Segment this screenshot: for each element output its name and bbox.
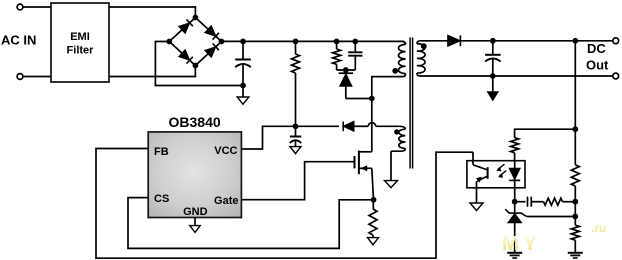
wire [109,66,195,77]
light arrows [498,164,505,169]
resistor R4 [511,138,519,153]
resistor R2 [336,41,338,49]
ground [194,218,196,226]
transformer T1 aux winding [400,126,406,129]
wire [574,41,576,165]
wire [376,125,400,127]
wire TL431 ref [527,216,576,218]
wire [420,40,448,42]
ground [368,238,379,245]
clamp diode D5 [345,70,347,73]
junction [334,39,340,45]
terminal DC- [613,73,619,79]
junction [343,67,349,73]
svg-text:CS: CS [154,193,169,205]
junction [166,39,172,45]
wire [23,76,51,78]
resistor R6 [571,165,579,186]
wire [514,153,516,161]
wire [563,201,576,203]
junction [193,15,199,21]
diode D4 [205,47,216,58]
wire [354,125,368,127]
terminal AC-L [17,4,23,10]
junction [193,63,199,69]
svg-text:Out: Out [586,57,609,72]
junction [572,199,578,205]
wire hop [368,123,375,127]
junction [369,96,375,102]
wire [222,40,405,42]
junction [572,38,578,44]
junction [490,38,496,44]
EMI filter block [51,3,109,82]
wire FB loop [96,149,473,259]
ground [290,147,301,154]
capacitor C2 [354,41,356,52]
diode D1 [179,23,190,34]
wire [371,99,373,152]
resistor R1 [295,41,297,54]
junction [352,39,358,45]
capacitor C4 [492,41,494,55]
junction [490,73,496,79]
wire [155,42,243,86]
IC U1 OB3840 [148,132,241,218]
opto transistor [472,152,474,165]
wire [337,69,356,71]
capacitor C1 [242,41,244,59]
capacitor C3 [295,126,297,136]
ground earth [507,252,522,254]
junction [293,123,299,129]
transformer T1 secondary [417,41,420,44]
wire [574,240,576,252]
svg-text:FB: FB [154,146,169,158]
shunt regulator U3 TL431 [514,202,516,213]
ground [242,86,244,98]
junction [512,199,518,205]
junction [293,39,299,45]
opto LED [514,161,516,169]
svg-text:AC IN: AC IN [1,33,36,48]
svg-text:.ru: .ru [591,221,606,235]
optocoupler U2 box [467,161,525,188]
ground earth [568,252,583,254]
diode D3 [205,26,216,37]
wire [109,7,195,18]
transistor Q1 [354,156,356,168]
svg-text:MY: MY [502,232,541,255]
junction [240,83,246,89]
terminal DC+ [613,38,619,44]
resistor R7 [571,225,579,240]
diode D6 [343,121,354,131]
wire [242,162,355,200]
svg-text:OB3840: OB3840 [169,114,221,130]
junction [371,197,377,203]
polarity dot aux [394,129,399,134]
svg-text:GND: GND [183,206,208,218]
wire [574,186,576,225]
bridge frame [169,18,221,66]
svg-text:EMI: EMI [70,31,90,43]
core [410,38,413,169]
ground [390,151,392,180]
resistor R5 [544,198,563,205]
wire [420,75,613,77]
wire [372,77,403,99]
junction [572,214,578,220]
junction [240,39,246,45]
polarity dot secondary [421,43,427,49]
transformer T1 primary [403,41,406,44]
junction [572,126,578,132]
terminal AC-N [17,74,23,80]
diode D2 [179,50,190,61]
wire [23,6,51,8]
svg-text:DC: DC [587,41,606,56]
resistor R3 [372,200,374,209]
junction [219,39,225,45]
ground secondary [488,92,498,100]
svg-text:VCC: VCC [214,145,237,157]
wire [459,40,613,42]
svg-text:Filter: Filter [67,45,95,57]
diode D7 [448,35,461,46]
wire [242,126,296,149]
capacitor C5 [528,197,532,207]
wire CS loop [128,198,371,249]
wire [296,125,340,127]
wire [515,201,526,203]
wire [346,98,372,100]
svg-text:Gate: Gate [214,195,238,207]
wire [515,129,576,138]
ground [476,188,478,203]
polarity dot primary [392,68,398,74]
